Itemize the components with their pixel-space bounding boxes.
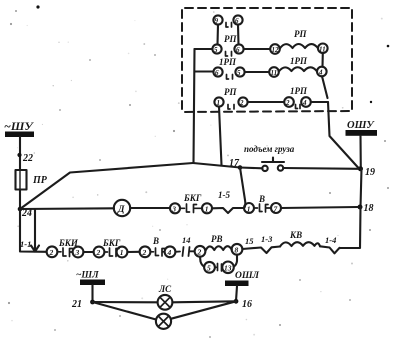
svg-text:16: 16 xyxy=(242,299,252,310)
wire row D branch down to control line xyxy=(219,107,222,166)
node 19 xyxy=(358,166,363,171)
wire OShL to node 16 xyxy=(236,286,237,301)
svg-text:3: 3 xyxy=(171,205,176,214)
1RP contact pair circles 2-4 xyxy=(284,97,311,108)
svg-text:12: 12 xyxy=(272,46,280,54)
relay cabinet dashed enclosure xyxy=(182,8,352,112)
meter D xyxy=(114,200,130,216)
svg-text:18: 18 xyxy=(364,203,374,214)
svg-text:2: 2 xyxy=(49,248,54,257)
wire row D to 1RP contact xyxy=(248,101,284,103)
svg-text:В: В xyxy=(152,236,159,246)
svg-text:2: 2 xyxy=(96,248,101,257)
svg-text:1РП: 1РП xyxy=(290,56,308,66)
lamp lower xyxy=(156,314,171,329)
terminal 1b xyxy=(244,203,254,213)
bus ~ShU label xyxy=(4,119,34,133)
bus bar OShU xyxy=(346,130,378,136)
wire stub row C left xyxy=(195,70,214,72)
svg-text:1: 1 xyxy=(205,205,209,214)
label BKI xyxy=(58,238,79,248)
node 17 xyxy=(238,165,243,170)
svg-text:5: 5 xyxy=(237,69,241,77)
contact 14 xyxy=(175,247,194,256)
svg-text:В: В xyxy=(258,194,265,204)
svg-text:22: 22 xyxy=(22,153,33,164)
wire meter to terminal 3 xyxy=(130,207,170,209)
svg-text:2: 2 xyxy=(285,99,290,107)
wire RV lower branch left xyxy=(200,257,204,267)
node 16 xyxy=(234,299,239,304)
wire stub row B left xyxy=(195,48,213,50)
svg-text:КВ: КВ xyxy=(289,230,302,240)
svg-text:1РП: 1РП xyxy=(219,57,237,67)
wire row B to coil RP xyxy=(244,48,270,50)
bus bar ~ShL xyxy=(80,280,105,286)
scan speckles xyxy=(36,5,389,103)
coil RV xyxy=(205,246,231,251)
svg-text:БКГ: БКГ xyxy=(102,238,121,248)
wire node21 to lower lamp xyxy=(93,302,157,320)
svg-text:7: 7 xyxy=(274,204,278,213)
terminal 2a xyxy=(47,246,58,257)
wire lamp LS to node16 xyxy=(172,301,236,302)
terminal 2b xyxy=(94,247,105,258)
wire ~ShL to node 21 xyxy=(91,285,93,302)
contact V row2 xyxy=(254,204,271,212)
label BKG row2 xyxy=(183,193,202,203)
svg-text:2: 2 xyxy=(142,248,147,257)
wire row A to row B stubs xyxy=(218,25,239,45)
connector 1-3 xyxy=(242,247,280,254)
coil RP xyxy=(280,44,318,49)
svg-text:6: 6 xyxy=(236,46,240,54)
svg-text:17: 17 xyxy=(229,158,240,169)
label RP (left contacts) xyxy=(224,34,237,44)
svg-text:13: 13 xyxy=(224,264,232,273)
svg-text:2: 2 xyxy=(197,248,202,257)
svg-text:4: 4 xyxy=(167,248,172,257)
wire fuse to node 24 xyxy=(19,190,21,210)
wire bus to fuse xyxy=(19,137,21,170)
wire node 18 down to coil row corner xyxy=(340,207,361,248)
svg-text:~ШЛ: ~ШЛ xyxy=(76,271,99,281)
relay box row C: 1RP contact pair circles 6-5 xyxy=(213,67,244,79)
svg-text:1: 1 xyxy=(247,204,251,213)
bus OShU label xyxy=(347,120,375,131)
svg-text:3: 3 xyxy=(75,248,80,257)
coil KV xyxy=(280,242,320,246)
svg-text:РП: РП xyxy=(224,34,237,44)
svg-text:ОШУ: ОШУ xyxy=(347,120,375,131)
wire node21 to lamp LS xyxy=(93,301,158,303)
svg-text:РВ: РВ xyxy=(211,234,223,244)
label V row2 xyxy=(258,194,265,204)
fuse PR xyxy=(16,170,27,190)
node 24 xyxy=(18,207,23,212)
svg-text:11: 11 xyxy=(271,69,278,77)
relay box row A: contact pair circles 9-6 xyxy=(213,15,242,27)
wire RV lower branch right xyxy=(234,255,237,267)
wire OShU bus down to node 19 xyxy=(359,136,361,169)
wire node24 down to interlock row xyxy=(20,209,47,252)
label 1RP (left contacts) xyxy=(219,57,237,67)
svg-text:1-4: 1-4 xyxy=(325,235,336,245)
label BKG bottom xyxy=(102,238,121,248)
wire node 19 to node 18 xyxy=(361,169,362,207)
svg-text:6: 6 xyxy=(215,69,219,77)
svg-text:ОШЛ: ОШЛ xyxy=(235,271,260,281)
wire node 17 down to interlock row xyxy=(240,168,245,209)
wire control line to node 17 xyxy=(193,163,240,168)
svg-text:1: 1 xyxy=(120,248,124,257)
svg-text:РП: РП xyxy=(294,29,307,39)
wire RP-contacts branch vertical xyxy=(194,49,195,163)
wire lower lamp to node16 xyxy=(171,301,236,319)
terminal 2c xyxy=(140,246,151,257)
wire xyxy=(83,251,93,253)
terminal 7 xyxy=(271,203,281,213)
svg-text:19: 19 xyxy=(365,167,375,178)
svg-text:15: 15 xyxy=(245,236,254,246)
svg-text:14: 14 xyxy=(182,235,191,245)
connector 1-1 branch xyxy=(31,209,39,252)
svg-text:~ШУ: ~ШУ xyxy=(4,119,34,133)
svg-text:БКГ: БКГ xyxy=(183,193,202,203)
wire xyxy=(127,251,139,253)
svg-text:4: 4 xyxy=(302,99,307,107)
terminal 1 xyxy=(202,203,212,213)
terminal 13 xyxy=(222,262,234,274)
svg-text:ПР: ПР xyxy=(32,175,48,186)
label V bottom xyxy=(152,236,159,246)
terminal 3a xyxy=(73,247,84,258)
svg-text:1-5: 1-5 xyxy=(218,190,230,200)
coil 1RP xyxy=(279,67,317,71)
terminal 4a xyxy=(165,246,176,257)
node 21 xyxy=(90,300,95,305)
lamp LS xyxy=(158,295,173,310)
wire row 2 from node 24 to meter xyxy=(20,207,114,210)
relay box row B: RP contact pair circles 5-6 xyxy=(212,44,243,56)
contact BKG bottom xyxy=(104,248,119,257)
svg-text:1РП: 1РП xyxy=(290,86,308,96)
relay box row D: RP contact pair circles 1-2 xyxy=(214,97,247,109)
terminal 11 xyxy=(269,67,279,77)
wire row2 to node 18 xyxy=(281,207,358,208)
svg-text:1-3: 1-3 xyxy=(261,234,273,244)
connector 1-5 xyxy=(212,208,244,213)
terminal 3 xyxy=(170,203,180,213)
svg-text:подъем груза: подъем груза xyxy=(244,144,295,154)
pushbutton podjem gruza xyxy=(240,158,284,172)
svg-text:2: 2 xyxy=(239,99,244,107)
label 14 xyxy=(182,235,191,245)
svg-text:РП: РП xyxy=(224,87,237,97)
node 22 xyxy=(17,153,21,157)
wire row C to coil 1RP xyxy=(245,71,269,73)
contact BKI xyxy=(57,248,72,257)
wire right column joining coils xyxy=(322,53,328,98)
terminal 11 right xyxy=(318,44,328,54)
label 1RP (bottom right contact) xyxy=(290,86,308,96)
svg-text:1: 1 xyxy=(217,99,221,107)
wire diagonal node24 up to control line xyxy=(20,163,193,209)
terminal 2d xyxy=(195,246,206,257)
contact RV lower xyxy=(215,264,223,272)
bus OShL label xyxy=(235,271,260,281)
wire right column exits box to node 19 xyxy=(328,102,359,168)
terminal 12 xyxy=(270,44,280,54)
terminal 8 xyxy=(232,244,243,255)
bus bar ~ShU xyxy=(5,132,34,138)
svg-text:8: 8 xyxy=(235,246,239,255)
label 15 xyxy=(245,236,254,246)
bus ~ShL label xyxy=(76,271,99,281)
terminal 1a xyxy=(117,247,128,258)
connector 1-4 xyxy=(320,246,340,253)
svg-text:5: 5 xyxy=(207,264,211,273)
svg-text:Д: Д xyxy=(117,205,125,215)
bus bar OShL xyxy=(225,281,249,287)
contact BKG row2 xyxy=(180,204,202,213)
wire contact to right column xyxy=(311,101,328,103)
svg-text:ЛС: ЛС xyxy=(158,284,172,294)
svg-text:5: 5 xyxy=(214,46,218,54)
node 18 xyxy=(358,205,363,210)
svg-text:1-1: 1-1 xyxy=(20,239,31,249)
label RP (row D) xyxy=(224,87,237,97)
terminal 5 xyxy=(204,262,215,273)
contact V bottom xyxy=(150,248,165,256)
wire pushbutton to node 19 xyxy=(283,167,358,170)
svg-text:21: 21 xyxy=(71,299,82,310)
terminal 4 right xyxy=(317,67,327,77)
